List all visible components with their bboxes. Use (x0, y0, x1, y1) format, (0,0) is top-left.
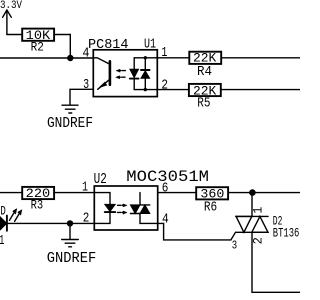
LED pair inside U1 (130, 56, 157, 91)
svg-text:1: 1 (161, 46, 167, 61)
svg-text:4: 4 (162, 213, 169, 228)
transistor inside U1 (93, 58, 110, 90)
svg-text:U2: U2 (94, 172, 107, 188)
svg-text:LED: LED (0, 204, 6, 219)
wire U1 pin 1 to R4 (157, 57, 189, 59)
svg-text:1: 1 (82, 181, 88, 196)
wire LED to U2 pin 2 (7, 222, 94, 224)
wire triac D2 down to bottom right (252, 232, 300, 292)
svg-text:3: 3 (83, 78, 89, 93)
power +3.3V symbol (3, 10, 12, 35)
svg-text:U1: U1 (144, 38, 156, 53)
node junction bottom left (67, 220, 73, 226)
wire left edge to R3 (0, 192, 22, 194)
svg-text:R5: R5 (197, 95, 210, 111)
wire left bus to U1 pin 4 (0, 57, 93, 59)
resistor R2 (22, 29, 54, 41)
ground GNDREF top (62, 105, 78, 113)
resistor R3 (22, 187, 54, 199)
svg-text:R2: R2 (31, 41, 44, 55)
svg-text:R4: R4 (197, 64, 212, 80)
svg-text:2: 2 (251, 237, 266, 244)
wire R4 to right edge (221, 57, 300, 59)
wire R3 to U2 pin 1 (54, 192, 94, 194)
node junction right (249, 189, 256, 196)
wire U1 pin 3 to ground (70, 89, 93, 104)
svg-text:3: 3 (232, 238, 237, 252)
resistor R4 (189, 52, 221, 64)
svg-text:+3.3V: +3.3V (0, 0, 22, 12)
wire U1 pin 2 to R5 (157, 89, 189, 91)
svg-text:PC814: PC814 (88, 37, 129, 53)
LED inside U2 (94, 193, 115, 224)
svg-text:GNDREF: GNDREF (47, 116, 93, 132)
svg-text:6: 6 (162, 182, 169, 197)
svg-text:R3: R3 (31, 199, 44, 213)
svg-text:1: 1 (251, 207, 266, 214)
svg-text:R6: R6 (204, 199, 217, 215)
op-amp U1 body PC814 (93, 50, 157, 97)
wire U2 pin 6 to R6 (158, 192, 197, 194)
svg-text:BT136-600: BT136-600 (273, 226, 300, 241)
light arrows U1 (116, 69, 126, 78)
LED D1 (0, 209, 22, 231)
resistor R6 (196, 187, 228, 199)
light arrows U2 (118, 204, 127, 214)
ground GNDREF bottom (62, 240, 79, 247)
wire R2 to node (54, 35, 70, 59)
wire node to ground (69, 223, 71, 238)
op-amp U2 body MOC3051M (94, 186, 157, 230)
wire R5 to right edge (221, 89, 300, 91)
svg-text:4: 4 (83, 46, 90, 61)
node junction top (67, 55, 73, 61)
wire U2 pin 4 to triac gate (158, 223, 236, 240)
wire R6 to right edge (228, 192, 300, 194)
svg-text:GNDREF: GNDREF (47, 249, 96, 267)
resistor R5 (189, 84, 221, 96)
triac D2 (236, 216, 268, 232)
triac inside U2 (130, 193, 157, 224)
wire power to R2 (7, 34, 22, 36)
wire node down to triac D2 (251, 193, 253, 217)
svg-text:2: 2 (83, 211, 90, 226)
svg-text:2: 2 (161, 78, 168, 93)
svg-text:D1: D1 (0, 233, 4, 249)
